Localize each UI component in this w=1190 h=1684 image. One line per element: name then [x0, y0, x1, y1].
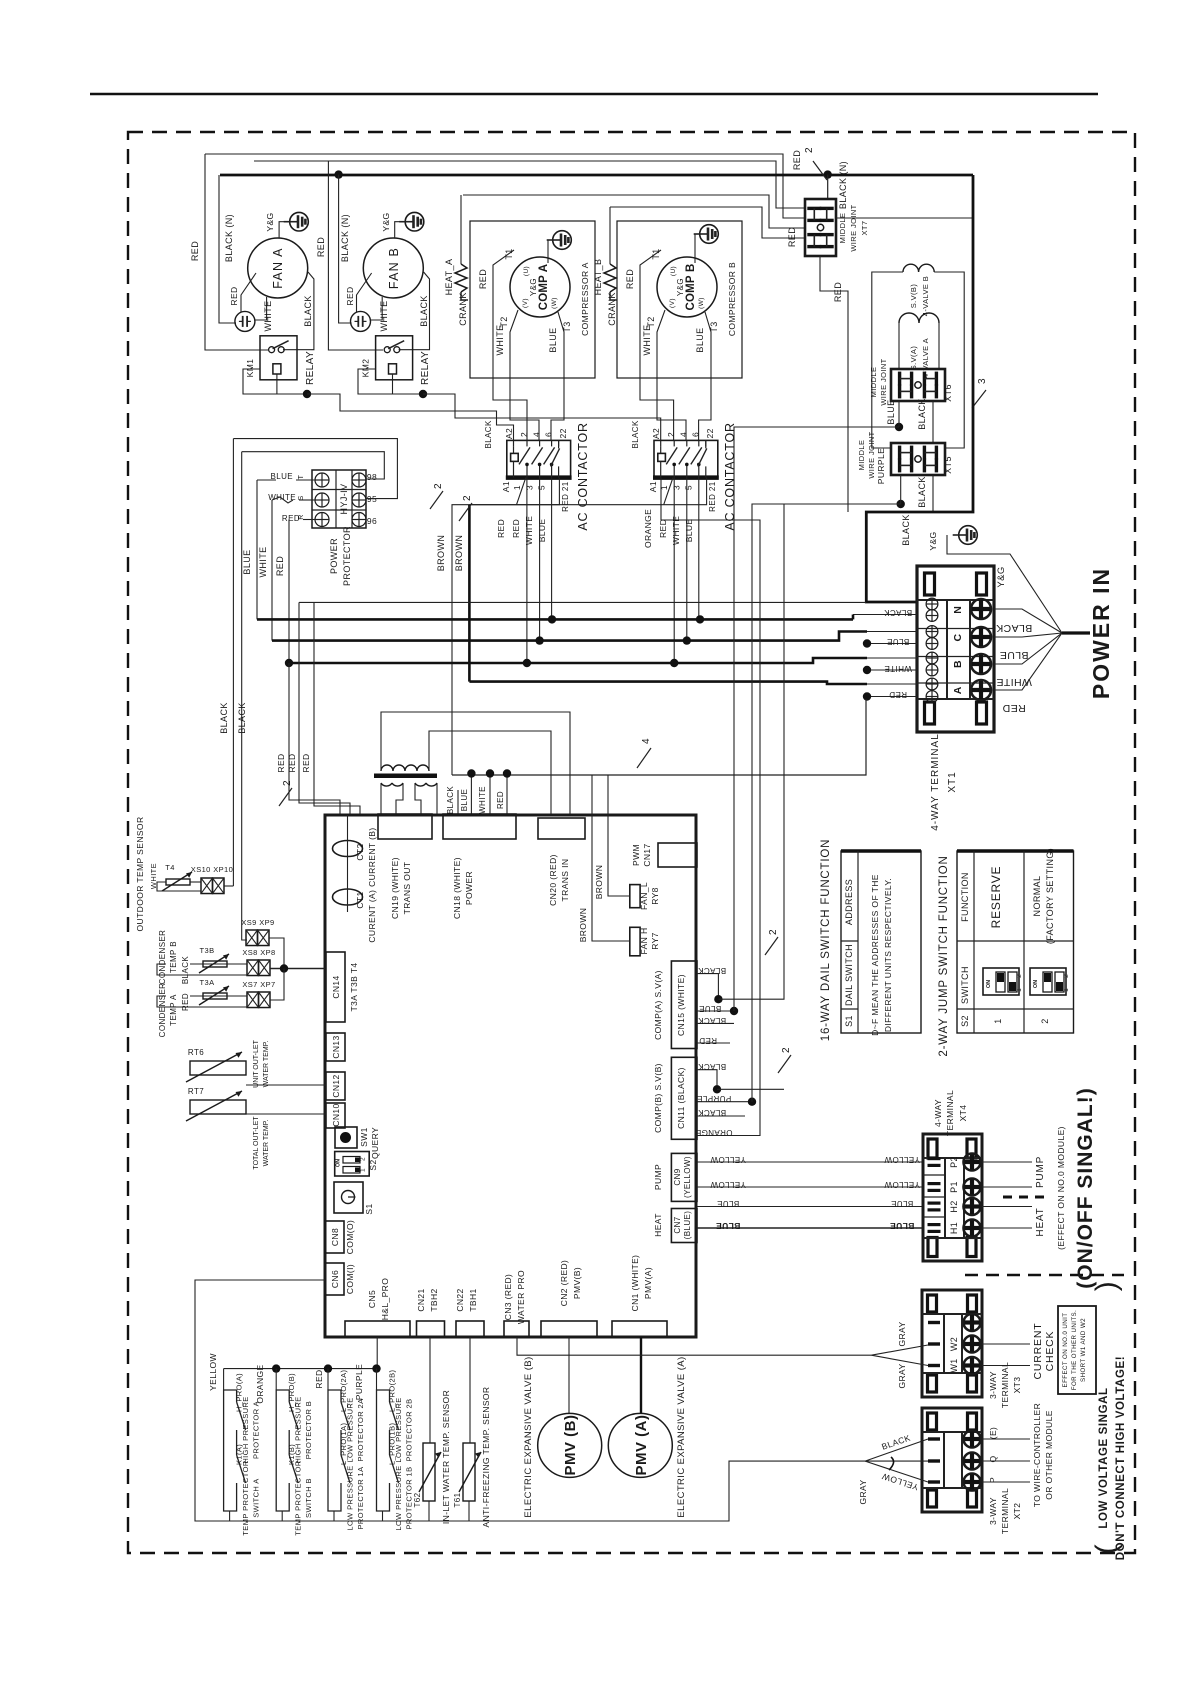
page top rule: [90, 93, 1098, 96]
svg-text:ORANGE: ORANGE: [695, 1128, 732, 1137]
svg-text:BROWN: BROWN: [594, 865, 604, 900]
wire CN15 BLACK2: [697, 1022, 734, 1024]
svg-text:XS8 XP8: XS8 XP8: [242, 948, 275, 957]
svg-text:BLUE: BLUE: [537, 518, 547, 542]
svg-text:W2: W2: [949, 1337, 959, 1351]
wire XP10 to PCB: [224, 885, 233, 887]
svg-text:1: 1: [1063, 988, 1070, 992]
svg-text:RESERVE: RESERVE: [989, 866, 1003, 929]
svg-text:HYJ-IV: HYJ-IV: [339, 484, 349, 515]
svg-text:YELLOW: YELLOW: [884, 1180, 920, 1189]
svg-text:S2: S2: [960, 1015, 970, 1027]
wire CN15 BLUE to XT6 net: [697, 1010, 734, 1012]
svg-text:BLACK: BLACK: [631, 420, 640, 448]
svg-text:XT4: XT4: [958, 1105, 968, 1122]
wire KM1 coil left loop: [243, 369, 277, 394]
svg-text:A: A: [952, 686, 964, 694]
svg-text:BLUE: BLUE: [890, 1221, 915, 1231]
outdoor temp sensor T4: [166, 879, 190, 885]
wire GRAY net to XT3: [517, 1337, 871, 1355]
svg-text:WATER TEMP.: WATER TEMP.: [263, 1041, 270, 1088]
svg-text:XS7 XP7: XS7 XP7: [242, 980, 275, 989]
svg-text:CRANK: CRANK: [458, 292, 468, 326]
bundle mark 2 brown A: [430, 491, 443, 509]
wire protector 98 loop: [242, 452, 385, 479]
svg-text:CN20 (RED): CN20 (RED): [548, 854, 558, 906]
wire BROWN to FAN_H: [592, 775, 630, 941]
svg-text:(U): (U): [670, 266, 677, 276]
svg-text:R: R: [298, 514, 305, 519]
wire XT7 right to right trunk: [836, 217, 973, 219]
svg-text:(: (: [1090, 1544, 1123, 1554]
svg-text:RED: RED: [889, 690, 907, 699]
trunk RED thick: [289, 658, 867, 663]
protector chain L_PRO(2A): [327, 1369, 329, 1390]
svg-text:WATER PRO: WATER PRO: [516, 1270, 526, 1324]
svg-text:): ): [1090, 1281, 1123, 1291]
svg-text:CN2 (RED): CN2 (RED): [559, 1260, 569, 1307]
junction dot fan B relay: [419, 390, 427, 398]
svg-text:CN6: CN6: [330, 1270, 340, 1288]
wire S.V(B) loop right: [934, 272, 964, 448]
svg-text:2-WAY JUMP SWITCH FUNCTION: 2-WAY JUMP SWITCH FUNCTION: [938, 855, 950, 1056]
svg-text:TERMINAL: TERMINAL: [1000, 1488, 1010, 1534]
svg-text:BLACK: BLACK: [996, 622, 1032, 634]
svg-text:T: T: [298, 474, 305, 479]
svg-text:BROWN: BROWN: [454, 535, 464, 572]
bundle mark 2 brown B: [459, 503, 472, 521]
svg-text:Y&G: Y&G: [928, 531, 938, 550]
svg-text:6: 6: [691, 432, 701, 437]
rotary switch S1: [334, 1182, 363, 1213]
svg-text:2: 2: [360, 1157, 367, 1161]
svg-text:BLUE: BLUE: [548, 327, 558, 352]
svg-text:GRAY: GRAY: [858, 1479, 868, 1504]
svg-text:T4: T4: [165, 863, 175, 872]
comp motor B: [657, 257, 717, 317]
wire BLACK XT5 down to trunk: [932, 475, 934, 512]
svg-text:RED: RED: [316, 237, 326, 257]
svg-text:BLACK: BLACK: [419, 295, 429, 327]
svg-text:WHITE: WHITE: [642, 325, 652, 356]
XT4 pin P2: [928, 1157, 941, 1160]
wire contactor A out WHITE: [539, 478, 541, 641]
relay FAN_H RY7: [630, 927, 640, 956]
connector CN6 COM(I): [325, 1263, 344, 1295]
svg-text:BLACK: BLACK: [917, 398, 927, 430]
svg-text:COMPRESSOR A: COMPRESSOR A: [580, 262, 590, 336]
svg-text:W1: W1: [949, 1358, 959, 1372]
wire S.V(A) left down to XT6: [898, 323, 900, 369]
svg-text:BLACK: BLACK: [698, 1016, 726, 1025]
wire PURPLE XT5 stub: [900, 475, 902, 504]
svg-text:(W): (W): [551, 297, 558, 309]
svg-text:COMP A: COMP A: [538, 264, 550, 311]
power in convergence: [1062, 631, 1090, 634]
wire KM2 coil left loop: [358, 369, 393, 394]
compressor A enclosure: [470, 221, 595, 378]
protector chain L_PRO(2B): [376, 1369, 378, 1390]
outer dashed border: [128, 132, 1135, 1553]
connector CN14: [326, 952, 345, 1022]
wire BLUE heat 2: [697, 1227, 923, 1229]
svg-text:BLUE: BLUE: [887, 637, 910, 646]
svg-text:S.V(B): S.V(B): [909, 284, 918, 309]
wire CN22 to T61: [469, 1337, 471, 1443]
svg-text:TEMP A: TEMP A: [169, 994, 178, 1026]
svg-text:P1: P1: [949, 1181, 959, 1193]
svg-text:XT2: XT2: [1012, 1503, 1022, 1520]
compressor B enclosure: [617, 221, 742, 378]
svg-text:RED: RED: [658, 519, 668, 538]
connector XS9 XP9: [246, 930, 258, 946]
CT2 current transformer: [333, 841, 363, 857]
svg-text:6: 6: [543, 432, 553, 437]
svg-text:XT1: XT1: [947, 771, 958, 792]
svg-text:RT6: RT6: [188, 1048, 204, 1057]
svg-text:S2: S2: [368, 1159, 378, 1170]
svg-text:RT7: RT7: [188, 1087, 204, 1096]
svg-text:CN17: CN17: [642, 843, 652, 866]
wire WHITE protector: [299, 499, 315, 501]
wire comp B lead RED: [640, 250, 674, 440]
svg-text:HEAT_B: HEAT_B: [593, 259, 603, 296]
svg-text:MIDDLE: MIDDLE: [869, 367, 878, 398]
wire comp A lead WHITE: [510, 310, 539, 440]
svg-text:XT6: XT6: [943, 384, 953, 402]
svg-text:QUERY: QUERY: [370, 1127, 380, 1159]
wire Y&G comp B to ground: [695, 234, 699, 263]
svg-text:BLUE: BLUE: [717, 1199, 740, 1208]
wire RED fan A drop to relay: [205, 154, 268, 350]
wire cap to motor fan B: [357, 273, 372, 312]
svg-text:ON: ON: [1033, 980, 1039, 988]
XT1 phase C pins: [926, 626, 938, 638]
wires BLACK BLUE WHITE RED to CN18: [457, 790, 459, 815]
svg-text:RED 21: RED 21: [561, 481, 570, 512]
svg-text:BLUE: BLUE: [699, 1004, 722, 1013]
svg-text:FAN A: FAN A: [271, 247, 285, 288]
thermistor RT6: [190, 1061, 246, 1075]
svg-text:PWM: PWM: [631, 844, 641, 866]
svg-text:CONDENSER: CONDENSER: [158, 983, 167, 1038]
thermistor T3B: [203, 961, 227, 967]
transformer secondary winding 2: [415, 783, 437, 786]
bundle mark 2 SV A: [765, 937, 778, 955]
wire GRAY to XT2 Q: [865, 1460, 928, 1462]
wire XT7 stub from BLACK(N) dot: [827, 175, 829, 200]
svg-text:IN-LET WATER TEMP. SENSOR: IN-LET WATER TEMP. SENSOR: [441, 1390, 451, 1524]
wire inner top run to XT7: [254, 161, 805, 208]
svg-text:PURPLE: PURPLE: [354, 1364, 364, 1400]
svg-text:1: 1: [360, 1168, 367, 1172]
XT1 phase B pins: [926, 652, 938, 664]
svg-text:3-WAY: 3-WAY: [988, 1371, 998, 1399]
svg-text:PMV (A): PMV (A): [633, 1415, 650, 1476]
XT1 phase A pins: [926, 678, 938, 690]
svg-text:COMP(A) S.V(A): COMP(A) S.V(A): [653, 970, 663, 1040]
power protector HYJ-IV body: [312, 470, 366, 528]
svg-text:YELLOW: YELLOW: [710, 1180, 746, 1189]
svg-text:GRAY: GRAY: [897, 1363, 907, 1388]
svg-text:CONDENSER: CONDENSER: [158, 930, 167, 985]
wire contactor A coil bundle to BROWN: [452, 505, 517, 775]
svg-text:POWER IN: POWER IN: [1088, 567, 1114, 699]
ground near XT1: [959, 526, 978, 545]
wire comp B lead WHITE: [657, 310, 686, 440]
wire WHITE fan A: [254, 297, 267, 320]
svg-text:4: 4: [679, 432, 689, 437]
ground fan A: [290, 212, 309, 231]
svg-text:S1: S1: [844, 1015, 854, 1027]
svg-text:TRANS IN: TRANS IN: [560, 859, 570, 902]
svg-text:PROTECTOR: PROTECTOR: [342, 526, 352, 586]
connector CN15 COMP(A): [671, 961, 697, 1049]
connector CN7 HEAT: [671, 1209, 697, 1243]
wire RT7 to CN10: [246, 1113, 326, 1115]
svg-text:CN10: CN10: [331, 1103, 341, 1126]
junction dot PURPLE: [897, 500, 905, 508]
svg-text:RED: RED: [181, 993, 190, 1011]
wire BLACK fan A: [283, 272, 314, 350]
wire contactor B out RED: [673, 478, 675, 663]
switch SW1 QUERY: [335, 1127, 357, 1148]
svg-text:RED: RED: [287, 753, 297, 772]
connector XS8 XP8: [247, 960, 259, 976]
wire CN11 BLACK1: [697, 1070, 717, 1090]
svg-text:TERMINAL: TERMINAL: [945, 1090, 955, 1136]
svg-text:COM(O): COM(O): [345, 1220, 355, 1255]
svg-text:2: 2: [1063, 974, 1070, 978]
svg-text:ON: ON: [986, 980, 992, 988]
svg-text:A2: A2: [504, 428, 514, 439]
connector CN3 WATER PRO: [504, 1321, 529, 1337]
wire BLACK(N) fan B drop to capacitor: [339, 175, 352, 323]
4-way terminal XT1 body: [917, 566, 994, 732]
wire BLACK fan B: [399, 272, 430, 350]
run capacitor fan B: [351, 311, 371, 331]
svg-text:PUMP: PUMP: [653, 1164, 663, 1190]
XT4 pin H2: [928, 1201, 941, 1204]
svg-text:MIDDLE: MIDDLE: [838, 213, 847, 244]
svg-text:16-WAY DAIL SWITCH FUNCTION: 16-WAY DAIL SWITCH FUNCTION: [820, 839, 832, 1041]
dip icon row 1: [983, 968, 1019, 995]
svg-text:CN22: CN22: [455, 1288, 465, 1311]
wire BLUE XT6 stub: [898, 401, 900, 427]
svg-text:BLACK: BLACK: [219, 702, 229, 734]
svg-text:FAN_L: FAN_L: [639, 882, 649, 910]
connector CN5 H&L_PRO: [345, 1321, 410, 1337]
wire transformer primary loop outer: [381, 712, 570, 815]
svg-text:TBH1: TBH1: [468, 1288, 478, 1311]
wire YELLOW pump 1: [697, 1161, 923, 1163]
svg-text:SHORT W1 AND W2: SHORT W1 AND W2: [1080, 1318, 1087, 1382]
svg-text:CN21: CN21: [416, 1288, 426, 1311]
svg-text:RED: RED: [699, 1036, 717, 1045]
svg-text:RED 21: RED 21: [708, 481, 717, 512]
svg-text:2: 2: [462, 495, 473, 501]
4-way terminal XT4 body: [923, 1134, 982, 1261]
svg-text:WHITE: WHITE: [478, 786, 487, 814]
svg-text:BLUE: BLUE: [716, 1221, 741, 1231]
svg-text:ADDRESS: ADDRESS: [844, 879, 854, 925]
protector chain H_PRO(B): [275, 1369, 277, 1390]
svg-text:CN8: CN8: [330, 1228, 340, 1246]
transformer primary winding: [381, 765, 429, 771]
svg-text:SWITCH: SWITCH: [960, 966, 970, 1004]
svg-text:CRANK: CRANK: [607, 292, 617, 326]
svg-text:3: 3: [672, 485, 682, 490]
wire T3A to XS7: [190, 995, 247, 997]
svg-text:POWER: POWER: [464, 871, 474, 905]
svg-text:(YELLOW): (YELLOW): [683, 1156, 692, 1198]
wire Y&G fan A to ground: [279, 222, 289, 238]
svg-text:MIDDLE: MIDDLE: [857, 440, 866, 471]
svg-text:2: 2: [1040, 1018, 1050, 1023]
svg-text:RED: RED: [787, 227, 797, 247]
wire CN5 drop to chain bus: [376, 1337, 378, 1369]
wire CN11 BLACK2: [697, 1115, 745, 1117]
svg-text:WATER TEMP.: WATER TEMP.: [263, 1120, 270, 1167]
svg-text:BLUE: BLUE: [242, 549, 252, 574]
svg-text:WIRE JOINT: WIRE JOINT: [879, 358, 888, 405]
note box current check: [1058, 1306, 1096, 1394]
wire BLACK(N) thick trunk: [220, 174, 973, 177]
wire thin N-phase tap: [299, 601, 866, 603]
svg-text:T3A: T3A: [200, 978, 215, 987]
thermistor T3A: [203, 993, 227, 999]
svg-text:BLACK (N): BLACK (N): [224, 214, 234, 262]
wire BROWN to FAN_L: [608, 775, 630, 896]
XT1 phase N pins: [926, 598, 938, 610]
wire BLACK XT6 down: [932, 401, 934, 443]
XT4 pin H1: [928, 1223, 941, 1226]
junction dot RED drop: [285, 659, 293, 667]
junction dots XT1 feed: [863, 639, 871, 647]
svg-text:BLACK: BLACK: [884, 608, 912, 617]
svg-text:CN12: CN12: [331, 1074, 341, 1097]
wire fan B junction staircase: [423, 394, 661, 440]
svg-text:RED: RED: [511, 519, 521, 538]
svg-text:RED: RED: [301, 753, 311, 772]
middle wire joint XT7: [805, 199, 836, 256]
run capacitor fan A: [235, 311, 255, 331]
svg-text:BLUE: BLUE: [695, 327, 705, 352]
ground comp B: [700, 225, 719, 244]
relay FAN_L RY8: [630, 885, 640, 908]
bundle mark 2 SV B: [778, 1055, 791, 1073]
svg-text:Y&G: Y&G: [676, 278, 685, 296]
svg-text:PMV(A): PMV(A): [643, 1267, 653, 1299]
svg-text:CN3 (RED): CN3 (RED): [503, 1274, 513, 1321]
wire HEAT_B run to XT7: [610, 207, 805, 238]
dashed mark between PUMP HEAT: [1003, 1196, 1048, 1199]
svg-text:(V): (V): [522, 298, 529, 308]
svg-text:YELLOW: YELLOW: [710, 1155, 746, 1164]
svg-text:KM2: KM2: [361, 359, 371, 378]
svg-text:YELLOW: YELLOW: [208, 1353, 218, 1391]
svg-text:(E): (E): [988, 1427, 998, 1440]
svg-text:BLACK: BLACK: [698, 1062, 726, 1071]
svg-text:C: C: [952, 633, 964, 641]
svg-text:OUTDOOR TEMP SENSOR: OUTDOOR TEMP SENSOR: [135, 817, 145, 932]
svg-text:4: 4: [531, 432, 541, 437]
svg-text:RED: RED: [496, 791, 505, 809]
svg-text:TO WIRE-CONTROLLER: TO WIRE-CONTROLLER: [1032, 1403, 1042, 1507]
wire RT6 to CN12: [246, 1084, 326, 1086]
svg-text:WHITE: WHITE: [263, 301, 273, 332]
svg-text:BLACK: BLACK: [901, 514, 911, 546]
svg-text:RED: RED: [276, 753, 286, 772]
svg-text:XS10 XP10: XS10 XP10: [191, 865, 233, 874]
svg-text:2: 2: [433, 483, 444, 489]
svg-text:FOR THE OTHER UNITS.: FOR THE OTHER UNITS.: [1071, 1310, 1078, 1390]
svg-text:T3A T3B T4: T3A T3B T4: [349, 962, 359, 1011]
middle wire joint XT5: [891, 443, 945, 475]
power protector screws: [315, 473, 329, 487]
wire through CTs: [347, 815, 349, 912]
svg-text:BLACK (N): BLACK (N): [838, 161, 848, 209]
wires XT3 out right: [982, 1343, 1030, 1345]
svg-text:T61: T61: [453, 1492, 462, 1507]
svg-text:BROWN: BROWN: [436, 535, 446, 572]
svg-text:RED: RED: [190, 241, 200, 261]
connector CN19 TRANS OUT: [378, 814, 432, 839]
svg-text:2: 2: [282, 780, 293, 786]
svg-text:5: 5: [536, 485, 546, 490]
svg-text:SW1: SW1: [359, 1127, 369, 1147]
wire CN11 PURPLE to XT5: [697, 1101, 752, 1103]
svg-text:1: 1: [1016, 988, 1023, 992]
wire XT7 RED out down: [820, 256, 848, 512]
bundle mark 4: [637, 748, 651, 768]
svg-text:BLACK: BLACK: [446, 786, 455, 814]
svg-text:BLACK: BLACK: [698, 1108, 726, 1117]
svg-text:Y&G: Y&G: [381, 212, 391, 231]
middle wire joint XT6: [891, 369, 945, 401]
svg-text:RED: RED: [833, 282, 843, 302]
svg-text:5: 5: [684, 485, 694, 490]
wire XP7 up to junction: [270, 969, 284, 1001]
svg-text:TOTAL OUT-LET: TOTAL OUT-LET: [253, 1116, 260, 1170]
svg-text:PURPLE: PURPLE: [876, 448, 886, 484]
svg-text:CT1: CT1: [355, 891, 365, 908]
wire CN11 ORANGE from contactor B coil: [661, 478, 760, 1136]
svg-text:FUNCTION: FUNCTION: [960, 872, 970, 922]
wire BLACK(N) fan A drop to capacitor: [219, 175, 236, 323]
svg-text:98: 98: [367, 472, 377, 482]
svg-text:A2: A2: [651, 428, 661, 439]
wire RED fan B drop to relay: [328, 161, 383, 350]
wire YELLOW to XT2 P: [865, 1461, 928, 1482]
connector XS7 XP7: [247, 992, 259, 1008]
svg-text:TBH2: TBH2: [429, 1288, 439, 1311]
svg-text:BLACK (N): BLACK (N): [340, 214, 350, 262]
svg-text:TERMINAL: TERMINAL: [1000, 1362, 1010, 1408]
connector CN11 COMP(B): [671, 1057, 697, 1139]
transformer core: [374, 774, 437, 779]
svg-text:L_PRO(1A): L_PRO(1A): [339, 1423, 348, 1465]
svg-text:CURENT (A) CURRENT (B): CURENT (A) CURRENT (B): [367, 827, 377, 942]
svg-text:2: 2: [666, 432, 676, 437]
wire comp B lead BLUE: [699, 312, 711, 440]
svg-text:WHITE: WHITE: [524, 516, 534, 545]
svg-text:4: 4: [641, 738, 652, 744]
wire contactor B coil bundle to BROWN: [469, 504, 663, 506]
dip switch S2: [335, 1152, 370, 1177]
AC contactor at x=506.8: [507, 440, 571, 477]
svg-text:SWITCH A: SWITCH A: [252, 1478, 261, 1517]
